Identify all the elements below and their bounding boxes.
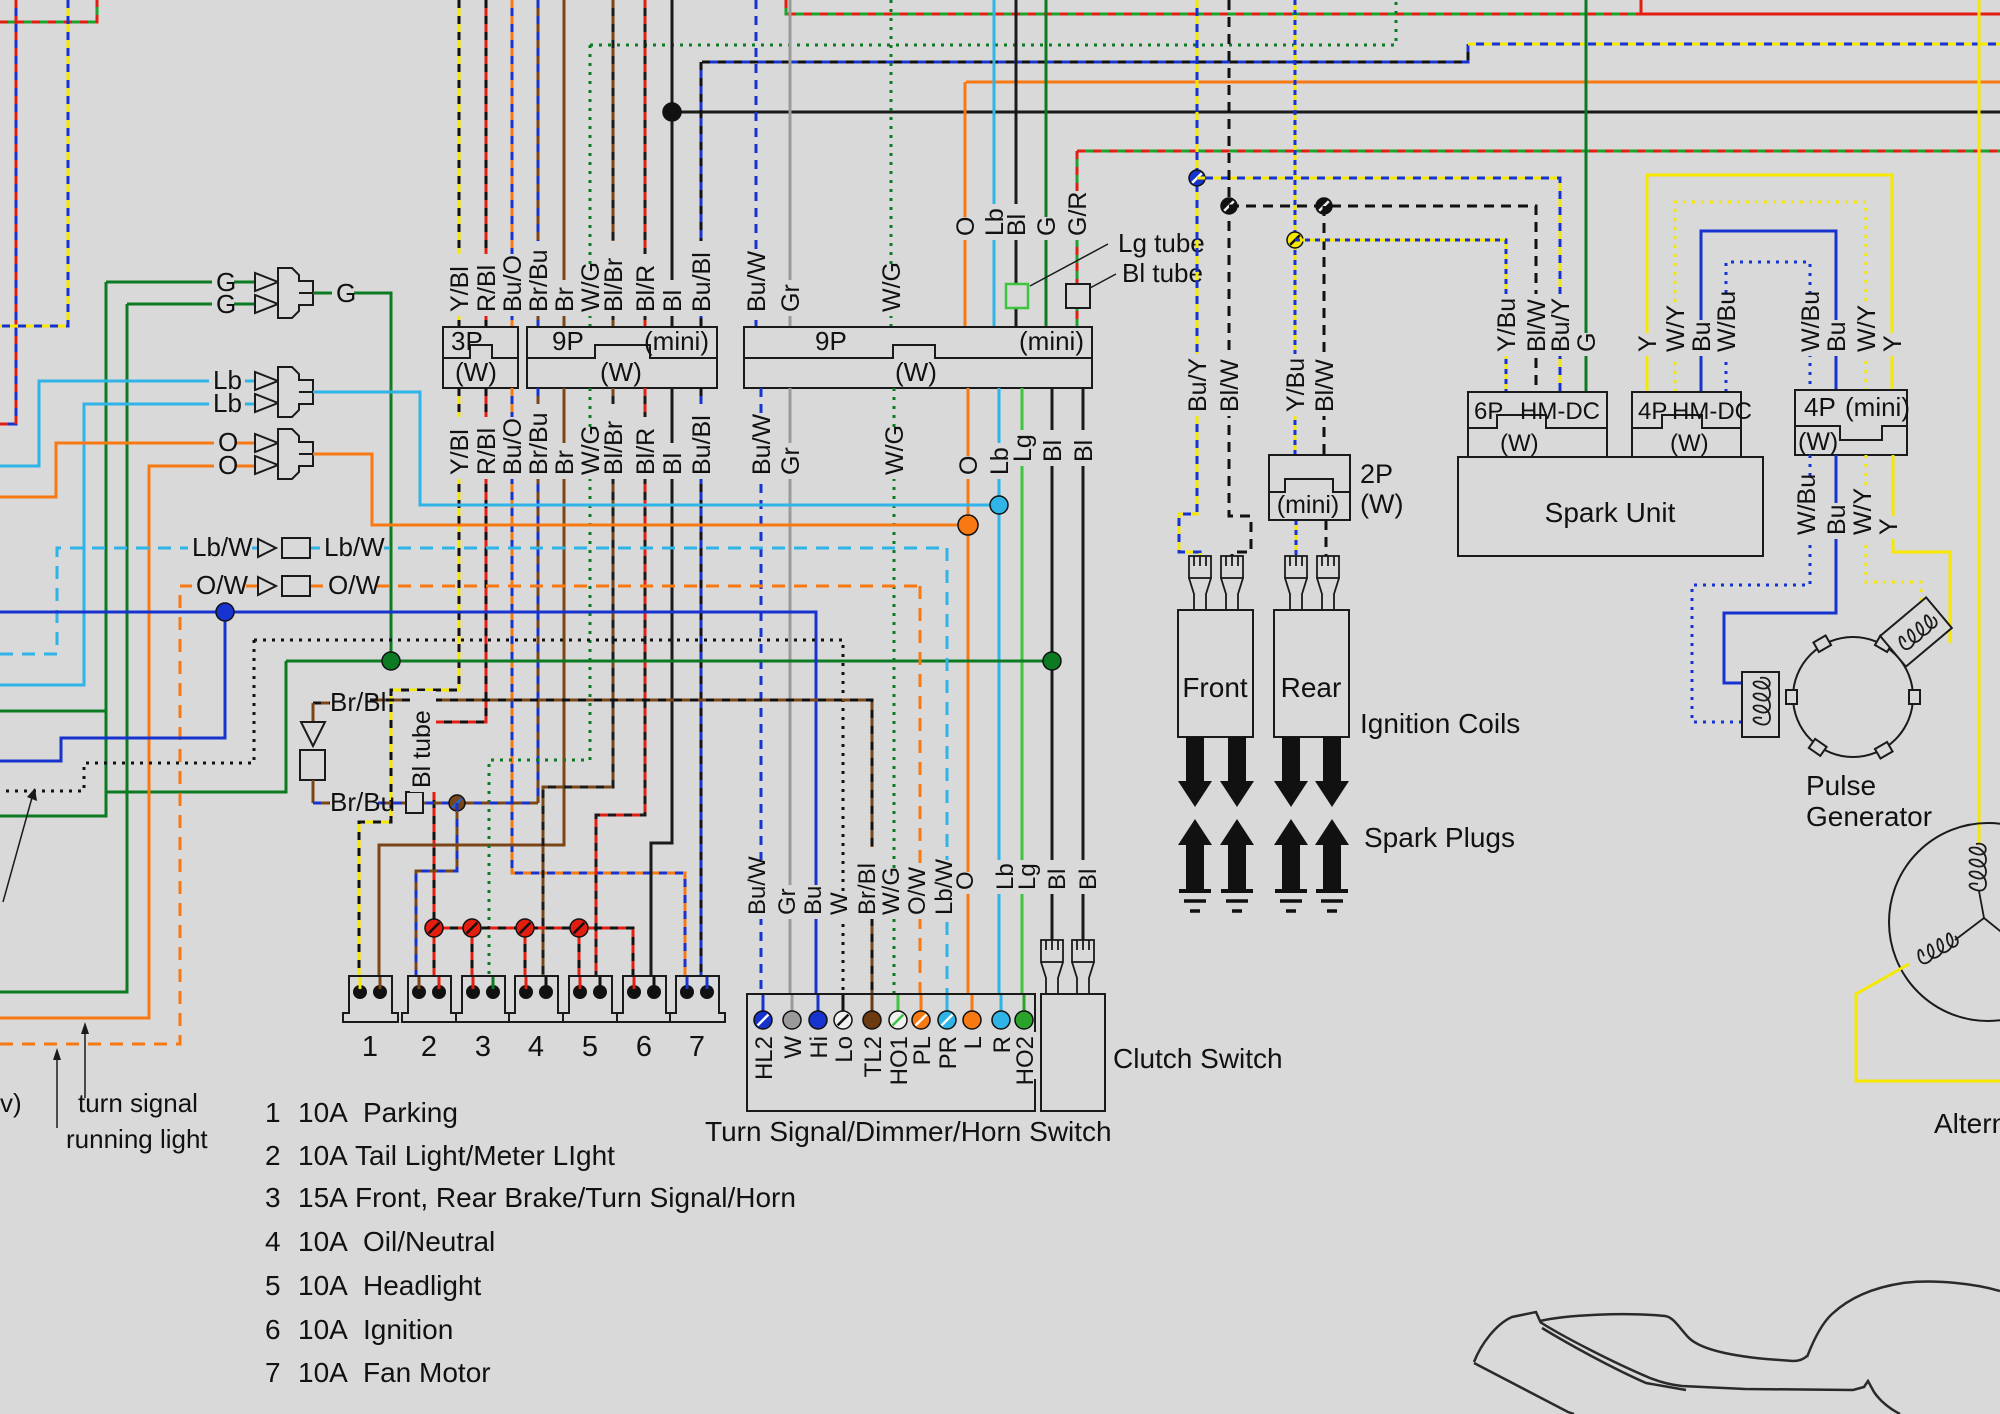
- wire Lb: [993, 0, 996, 327]
- svg-text:G: G: [216, 289, 236, 319]
- label W/Bu: [1715, 294, 1741, 356]
- label TL2: [861, 1032, 887, 1079]
- label HO1: [887, 1032, 913, 1079]
- svg-text:Lb/W: Lb/W: [324, 532, 385, 562]
- label W: [781, 1032, 807, 1054]
- switch pin Hi: [809, 1011, 827, 1029]
- svg-text:4: 4: [265, 1226, 281, 1257]
- junction G-Bl: [1043, 652, 1061, 670]
- spark plug arrows 1332: [1315, 737, 1349, 807]
- wire Br/Bu to fuse2: [416, 803, 457, 985]
- wire Bl/R: [644, 0, 647, 327]
- wire W/G: [589, 45, 592, 327]
- svg-text:Y/Bl: Y/Bl: [446, 429, 474, 475]
- wire Lb in1: [0, 381, 255, 466]
- svg-text:Bu/O: Bu/O: [499, 255, 527, 312]
- wire O/W to switch PL: [919, 586, 922, 1014]
- switch pin HL2: [754, 1011, 772, 1029]
- label Lb: [983, 204, 1009, 240]
- label Y/Bl: [448, 254, 474, 316]
- wire Lg to switch HO2: [1021, 388, 1024, 1014]
- junction G: [382, 652, 400, 670]
- junction Lb: [990, 496, 1008, 514]
- svg-text:Bu: Bu: [800, 886, 827, 915]
- wire Br: [563, 0, 566, 327]
- svg-text:v): v): [0, 1088, 22, 1118]
- label Y: [1877, 516, 1903, 539]
- wire Bu/Bl: [700, 62, 703, 327]
- wire W/G to fuse3: [489, 388, 590, 985]
- wire Bl/W to 2P: [1323, 206, 1326, 455]
- wire Bu to pulse coil: [1724, 455, 1836, 683]
- wire Bl/W to front coil: [1229, 0, 1251, 560]
- leader dotted wire: [3, 794, 33, 902]
- svg-text:Br: Br: [551, 450, 579, 475]
- svg-text:W/Y: W/Y: [1853, 304, 1881, 352]
- wire G in1: [106, 281, 255, 284]
- wire G/R top trunk: [786, 0, 1641, 14]
- wire W dotted to switch Lo: [254, 640, 843, 1014]
- label Bl/W: [1218, 354, 1244, 416]
- fuse 3: [456, 976, 511, 1022]
- wire Y to pulse coil 2: [1893, 455, 1950, 643]
- connector 4P HM-DC: [1632, 392, 1741, 457]
- label Br/Bu: [527, 241, 553, 316]
- label Bu: [1690, 320, 1716, 356]
- svg-text:(mini): (mini): [1845, 392, 1910, 422]
- wire Bu trunk to switch Hi: [0, 612, 816, 1014]
- diode D1: [301, 722, 325, 746]
- svg-text:Lg tube: Lg tube: [1118, 228, 1205, 258]
- label Gr: [775, 885, 801, 919]
- svg-text:Bu/O: Bu/O: [499, 418, 527, 475]
- svg-text:Hi: Hi: [806, 1036, 833, 1059]
- indicator Lb/W: [258, 539, 276, 557]
- label W/G: [579, 267, 605, 316]
- wire Lb/W right: [310, 547, 947, 550]
- label W/G: [883, 430, 909, 479]
- label Y: [1636, 333, 1662, 356]
- switch pin W: [783, 1011, 801, 1029]
- motorcycle silhouette: [1474, 1282, 2000, 1414]
- svg-text:Front, Rear Brake/Turn Signal/: Front, Rear Brake/Turn Signal/Horn: [355, 1182, 796, 1213]
- wire Br/Bu: [537, 0, 540, 327]
- wire Bu/Y trunk right: [1468, 43, 2000, 46]
- wire Gr: [789, 0, 792, 327]
- svg-text:10A: 10A: [298, 1270, 348, 1301]
- wire W/G to switch HO1: [893, 388, 896, 1014]
- junction fuse bus: [516, 919, 534, 937]
- connector 3P (W): [443, 327, 518, 388]
- svg-text:Ignition: Ignition: [363, 1314, 453, 1345]
- bulb Lb bulb: [255, 372, 278, 390]
- junction Bl/W 2: [1316, 198, 1332, 214]
- svg-text:Bu/Y: Bu/Y: [1184, 357, 1212, 412]
- wire G/R top-left stub: [0, 0, 97, 22]
- svg-text:4P: 4P: [1638, 398, 1667, 425]
- label Gr: [779, 443, 805, 479]
- wire Br/Bu horizontal: [378, 802, 538, 805]
- svg-text:Y: Y: [1879, 335, 1907, 352]
- label Bu/Y: [1186, 354, 1212, 416]
- svg-text:Y/Bl: Y/Bl: [446, 266, 474, 312]
- svg-text:Rear: Rear: [1281, 672, 1342, 703]
- svg-text:Alternator: Alternator: [1934, 1108, 2000, 1139]
- wire G in2: [127, 303, 255, 306]
- wire Br to fuse1: [379, 388, 564, 985]
- fuse wire stubs: [359, 977, 362, 989]
- svg-text:turn signal: turn signal: [78, 1088, 198, 1118]
- wire O: [964, 82, 967, 327]
- svg-text:1: 1: [362, 1031, 378, 1063]
- spark plug arrows 1237: [1220, 737, 1254, 807]
- svg-text:Bl/R: Bl/R: [632, 428, 660, 475]
- wire Lb bulb out: [313, 392, 999, 505]
- bulb O bulb: [255, 434, 278, 452]
- resistor block: [300, 750, 325, 780]
- svg-text:6: 6: [265, 1314, 281, 1345]
- svg-text:3P: 3P: [451, 326, 483, 356]
- label W/Y: [1855, 307, 1881, 356]
- label Gr: [779, 280, 805, 316]
- label Lg: [1015, 860, 1041, 894]
- svg-text:6P: 6P: [1474, 398, 1503, 425]
- pulse coil 1: [1742, 672, 1779, 737]
- svg-text:Br/Bu: Br/Bu: [525, 249, 553, 312]
- svg-text:Bl/Br: Bl/Br: [600, 421, 628, 475]
- wire Lb in2: [0, 404, 255, 685]
- junction Bl/W: [1221, 198, 1237, 214]
- svg-text:R/Bl: R/Bl: [473, 428, 501, 475]
- svg-text:W/Y: W/Y: [1849, 487, 1877, 535]
- svg-text:Bu/W: Bu/W: [744, 856, 771, 915]
- svg-text:Bu/Y: Bu/Y: [1547, 297, 1575, 352]
- svg-text:Bl tube: Bl tube: [1122, 258, 1203, 288]
- svg-text:5: 5: [265, 1270, 281, 1301]
- svg-text:Pulse: Pulse: [1806, 770, 1876, 801]
- svg-text:Bl: Bl: [659, 290, 687, 312]
- svg-text:Lb: Lb: [213, 388, 242, 418]
- switch pin HO2: [1015, 1011, 1033, 1029]
- label W/Bu: [1799, 294, 1825, 356]
- wire G in1 down: [0, 282, 106, 816]
- svg-text:Bu: Bu: [1823, 504, 1851, 535]
- pin connector coil pin 1200: [1189, 556, 1211, 578]
- wire bus drop fuse4: [524, 928, 527, 985]
- svg-text:Br/Bu: Br/Bu: [525, 412, 553, 475]
- svg-text:O: O: [952, 217, 980, 236]
- svg-text:10A: 10A: [298, 1226, 348, 1257]
- label Bu/O: [501, 254, 527, 316]
- wire G branch exit 711: [0, 710, 106, 713]
- label HO2: [1013, 1032, 1039, 1079]
- wire Bu branch left: [0, 612, 225, 761]
- label W/Bu: [1795, 477, 1821, 539]
- wire Y/Bu to 2P: [1294, 0, 1297, 455]
- wire bus drop fuse5: [578, 928, 581, 985]
- wire R/Bl: [485, 0, 488, 327]
- wire Bl 2: [1015, 0, 1018, 327]
- svg-text:W/Bu: W/Bu: [1797, 291, 1825, 352]
- wire Bl to clutch 2: [1082, 388, 1085, 940]
- wire R/Bl fuse bus: [434, 928, 633, 985]
- svg-text:Lo: Lo: [831, 1036, 858, 1063]
- svg-text:Br/Bl: Br/Bl: [330, 687, 386, 717]
- label HL2: [752, 1032, 778, 1079]
- pin connector clutch pin 2: [1072, 940, 1094, 962]
- svg-text:Spark Plugs: Spark Plugs: [1364, 822, 1515, 853]
- wire G/R trunk lower: [1077, 150, 2000, 153]
- switch pin R: [992, 1011, 1010, 1029]
- label Bl/W: [1313, 354, 1339, 416]
- label Y/Bu: [1495, 294, 1521, 356]
- wire Bu/Bl trunk: [702, 44, 1468, 62]
- wire G branch riser: [106, 661, 286, 792]
- label W/Y: [1664, 307, 1690, 356]
- svg-text:Bl: Bl: [659, 453, 687, 475]
- svg-text:Fan Motor: Fan Motor: [363, 1357, 491, 1388]
- label G/R: [1066, 191, 1092, 240]
- label Lb: [993, 860, 1019, 894]
- svg-text:3: 3: [475, 1031, 491, 1063]
- wire Bl/Br to fuse4: [543, 388, 613, 985]
- label G: [1035, 217, 1061, 240]
- switch pin L: [963, 1011, 981, 1029]
- label PL: [910, 1032, 936, 1066]
- svg-text:Gr: Gr: [777, 447, 805, 475]
- junction Bl: [663, 103, 681, 121]
- wire to diode: [312, 703, 315, 722]
- wire Bu/O: [511, 0, 514, 327]
- Bl tube marker: [1066, 284, 1090, 308]
- wire G to 6P: [1585, 0, 1588, 392]
- svg-text:Br: Br: [551, 287, 579, 312]
- svg-text:W: W: [826, 892, 853, 915]
- wire O/W left: [0, 586, 258, 1044]
- pin connector clutch pin 1: [1041, 940, 1063, 962]
- wire Y/Bl to fuse1: [359, 388, 459, 985]
- svg-text:R/Bl: R/Bl: [473, 265, 501, 312]
- fuse 2: [402, 976, 457, 1022]
- wire Bu/O to fuse7: [512, 388, 685, 985]
- label Br/Bl: [855, 847, 881, 919]
- label L: [961, 1032, 987, 1054]
- label Lo: [832, 1032, 858, 1066]
- label Hi: [807, 1032, 833, 1066]
- junction fuse bus: [425, 919, 443, 937]
- junction fuse bus: [463, 919, 481, 937]
- label Lb/W: [932, 860, 958, 919]
- label Bu: [1825, 503, 1851, 539]
- label Lg: [1011, 430, 1037, 466]
- svg-text:Clutch Switch: Clutch Switch: [1113, 1043, 1283, 1074]
- wire O bulb out: [313, 454, 968, 525]
- wire W/Y to pulse coil 2: [1866, 455, 1921, 606]
- svg-text:W/G: W/G: [881, 425, 909, 475]
- wire Bl/R to fuse5: [596, 388, 645, 985]
- label O: [957, 456, 983, 479]
- Rear ignition coil: [1274, 610, 1349, 737]
- svg-text:1: 1: [265, 1097, 281, 1128]
- svg-text:Bu/Bl: Bu/Bl: [688, 252, 716, 312]
- svg-text:W/G: W/G: [878, 262, 906, 312]
- svg-text:10A: 10A: [298, 1314, 348, 1345]
- svg-text:Ignition Coils: Ignition Coils: [1360, 708, 1520, 739]
- pin connector coil pin 1232: [1221, 556, 1243, 578]
- pin connector coil pin 1328: [1317, 556, 1339, 578]
- svg-text:HM-DC: HM-DC: [1520, 398, 1600, 425]
- label Bl: [661, 280, 687, 316]
- svg-text:Gr: Gr: [774, 888, 801, 915]
- svg-text:Bl/R: Bl/R: [632, 265, 660, 312]
- wire Lb/W left: [0, 548, 258, 654]
- wire R top right: [1641, 0, 2000, 14]
- fuse 5: [563, 976, 618, 1022]
- wire Lb/W to switch PR: [946, 548, 949, 1014]
- label W/Y: [1851, 490, 1877, 539]
- svg-text:2: 2: [421, 1031, 437, 1063]
- svg-text:O/W: O/W: [904, 867, 931, 915]
- label Bl/R: [634, 417, 660, 479]
- svg-text:Headlight: Headlight: [363, 1270, 482, 1301]
- svg-text:3: 3: [265, 1182, 281, 1213]
- wire G/R: [1076, 151, 1079, 327]
- label O/W: [905, 872, 931, 919]
- svg-text:Bl/W: Bl/W: [1311, 359, 1339, 412]
- label W/G: [879, 872, 905, 919]
- svg-text:TL2: TL2: [860, 1036, 887, 1077]
- wire Br/Bu stub: [313, 802, 330, 805]
- svg-text:W/Y: W/Y: [1662, 304, 1690, 352]
- svg-text:15A: 15A: [298, 1182, 348, 1213]
- svg-text:Turn Signal/Dimmer/Horn Switch: Turn Signal/Dimmer/Horn Switch: [705, 1116, 1112, 1147]
- svg-text:Gr: Gr: [777, 284, 805, 312]
- svg-text:10A: 10A: [298, 1097, 348, 1128]
- fuse 1: [343, 976, 398, 1022]
- wire Br/Bl stub: [313, 702, 330, 705]
- svg-text:(W): (W): [600, 357, 642, 387]
- wire Bl to clutch 1: [1051, 388, 1054, 940]
- svg-text:2P: 2P: [1360, 459, 1393, 489]
- fuse 6: [617, 976, 672, 1022]
- wire W/Bu to pulse coil: [1692, 455, 1810, 722]
- switch pin HO1: [889, 1011, 907, 1029]
- wire Bl/Br: [612, 0, 615, 327]
- wire Br/Bu down: [537, 388, 540, 803]
- svg-text:W/Bu: W/Bu: [1713, 291, 1741, 352]
- label W/G: [880, 267, 906, 316]
- label Bu: [801, 885, 827, 919]
- wire Bu/Bl to fuse7: [700, 388, 703, 985]
- svg-text:Bl/W: Bl/W: [1216, 359, 1244, 412]
- svg-text:(mini): (mini): [1019, 326, 1084, 356]
- label Bu/O: [501, 417, 527, 479]
- svg-text:Front: Front: [1182, 672, 1248, 703]
- junction Bu/Y: [1189, 170, 1205, 186]
- pulse coil 2: [1880, 597, 1952, 666]
- wire Bu/W to switch HL2: [760, 388, 763, 1014]
- wire Bl to fuse6: [651, 388, 672, 985]
- label Bl: [1045, 860, 1071, 894]
- wire W/G 2: [890, 0, 893, 327]
- label Y: [1881, 333, 1907, 356]
- svg-text:7: 7: [265, 1357, 281, 1388]
- svg-text:Bl: Bl: [1044, 869, 1071, 890]
- svg-text:Bu/W: Bu/W: [743, 250, 771, 312]
- label Y/Bl: [448, 417, 474, 479]
- label R: [990, 1032, 1016, 1054]
- svg-text:PL: PL: [909, 1036, 936, 1065]
- pulse generator rotor: [1786, 635, 1920, 758]
- svg-text:W/G: W/G: [878, 867, 905, 915]
- label W/G: [579, 430, 605, 479]
- wire R/Bl to fuse2: [434, 388, 486, 985]
- svg-text:G/R: G/R: [1064, 192, 1092, 236]
- wire W dotted left branch: [0, 640, 254, 791]
- label Br: [553, 280, 579, 316]
- label Bl: [1005, 204, 1031, 240]
- svg-text:Bl: Bl: [1003, 214, 1031, 236]
- connector 9P mini right: [744, 327, 1092, 388]
- wire Bu loop: [1701, 231, 1836, 392]
- svg-text:O: O: [218, 450, 238, 480]
- wire G in2 left exit: [0, 304, 127, 992]
- svg-text:O/W: O/W: [196, 570, 248, 600]
- switch pin PL: [912, 1011, 930, 1029]
- svg-text:(W): (W): [1670, 430, 1709, 457]
- label Br/Bu: [527, 404, 553, 479]
- wire Br/Bl to switch TL2: [370, 700, 872, 1014]
- svg-text:PR: PR: [935, 1036, 962, 1069]
- label W: [827, 897, 853, 919]
- wire Y/Bl: [458, 0, 461, 327]
- spark plug arrows 1195: [1178, 737, 1212, 807]
- svg-text:5: 5: [582, 1031, 598, 1063]
- wire O trunk: [966, 81, 2000, 84]
- svg-text:Br/Bl: Br/Bl: [854, 863, 881, 915]
- svg-text:(W): (W): [1500, 430, 1539, 457]
- svg-text:10A: 10A: [298, 1140, 348, 1171]
- fuse 4: [509, 976, 564, 1022]
- svg-text:(mini): (mini): [644, 326, 709, 356]
- label Br: [553, 443, 579, 479]
- svg-text:(W): (W): [895, 357, 937, 387]
- svg-text:9P: 9P: [815, 326, 847, 356]
- label Bl: [1076, 860, 1102, 894]
- label O: [953, 872, 979, 894]
- svg-text:Y: Y: [1634, 335, 1662, 352]
- wire O to switch L: [967, 388, 970, 1014]
- svg-text:(W): (W): [1360, 489, 1403, 519]
- svg-text:7: 7: [689, 1031, 705, 1063]
- switch pin Lo: [834, 1011, 852, 1029]
- wire Bl/W 2P to rear coil: [1325, 520, 1328, 560]
- svg-text:Bl tube: Bl tube: [408, 710, 436, 788]
- label Bl/R: [634, 254, 660, 316]
- wire W/G dotted trunk: [590, 0, 1396, 45]
- label Bu/Bl: [690, 241, 716, 316]
- connector 4P mini: [1795, 390, 1907, 455]
- Clutch Switch box: [1041, 994, 1105, 1111]
- svg-text:W/Bu: W/Bu: [1793, 474, 1821, 535]
- junction Bu: [216, 603, 234, 621]
- label Bl: [1072, 430, 1098, 466]
- label Bu/W: [750, 417, 776, 479]
- junction fuse bus: [570, 919, 588, 937]
- svg-text:10A: 10A: [298, 1357, 348, 1388]
- svg-text:Bu: Bu: [1823, 321, 1851, 352]
- svg-text:Bl/Br: Bl/Br: [600, 258, 628, 312]
